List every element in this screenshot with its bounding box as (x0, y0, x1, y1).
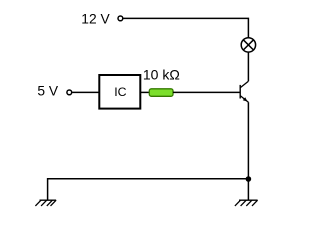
terminal 12 V (118, 16, 123, 21)
wire resistor to base (173, 91, 240, 93)
terminal 5 V (67, 90, 72, 95)
wire emitter to ground rail (247, 102, 249, 179)
svg-text:10 kΩ: 10 kΩ (143, 67, 180, 83)
wire 12V terminal to lamp (123, 18, 248, 37)
svg-text:5 V: 5 V (37, 84, 59, 99)
resistor R1 (149, 89, 173, 97)
svg-text:IC: IC (114, 85, 126, 99)
IC U1 (99, 75, 140, 109)
wire lamp to collector (247, 52, 249, 81)
wire 5V terminal to IC (72, 91, 99, 93)
lamp LP1 (241, 38, 255, 52)
ground left (35, 200, 56, 206)
svg-text:12 V: 12 V (81, 11, 110, 26)
junction emitter/ground rail (246, 176, 252, 182)
wire ground rail (48, 179, 249, 200)
wire IC to resistor (140, 91, 149, 93)
ground right (235, 200, 258, 206)
transistor Q1 (240, 81, 248, 102)
wire junction to right ground (247, 179, 249, 200)
